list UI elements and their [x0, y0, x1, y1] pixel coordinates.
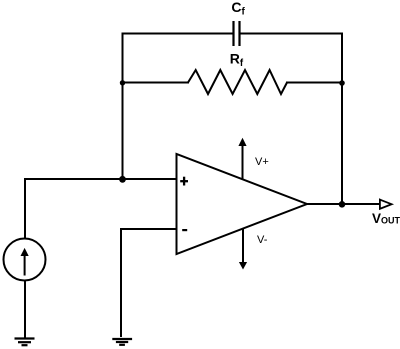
ground: below current source: [15, 339, 35, 346]
wire: right vertical feedback wire: [341, 33, 343, 206]
op-amp - input sign: [182, 229, 187, 231]
junction dot: inverting-side input node: [119, 176, 126, 183]
wire: - input horizontal wire: [121, 228, 177, 230]
output terminal open arrowhead: [380, 200, 392, 209]
wire: resistor branch left lead: [123, 82, 190, 84]
wire: top feedback branch left of Cf: [123, 33, 234, 35]
wire: - input vertical wire to ground: [120, 228, 122, 337]
svg-text:V+: V+: [255, 156, 269, 168]
wire: current source bottom lead: [24, 281, 26, 339]
svg-text:V-: V-: [257, 234, 268, 246]
wire: + input horizontal wire: [25, 178, 177, 180]
junction dot: left resistor node: [120, 80, 125, 85]
op-amp U1 triangle: [177, 154, 308, 254]
wire: current source top lead: [24, 178, 26, 239]
wire: left vertical feedback wire: [122, 33, 124, 181]
resistor Rf zigzag: [188, 70, 287, 94]
wire: resistor branch right lead: [286, 82, 343, 84]
junction dot: right resistor node: [339, 80, 345, 86]
current source I1 circle: [4, 239, 46, 281]
capacitor Cf plates: [234, 21, 240, 46]
wire: top feedback branch right of Cf: [240, 33, 344, 35]
current source I1 arrow: [21, 248, 29, 276]
junction dot: output node: [339, 201, 346, 208]
ground: below inverting input: [112, 339, 132, 345]
op-amp + input sign: [180, 177, 188, 186]
V- supply arrow: [239, 229, 247, 270]
V+ supply arrow: [238, 138, 246, 180]
wire: output wire: [306, 203, 380, 205]
